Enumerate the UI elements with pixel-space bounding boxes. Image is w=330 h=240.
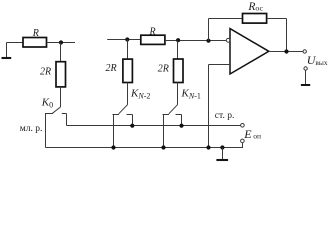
switch K0 left contact <box>45 113 53 115</box>
wire 2R to switch K0 <box>60 87 62 107</box>
wire 2R to switch KN-1 <box>177 83 179 105</box>
svg-text:оп: оп <box>253 131 261 140</box>
ground (output) <box>301 84 310 86</box>
wire K0 left contact to lower bus <box>45 114 47 148</box>
switch KN-2 right contact <box>127 114 133 116</box>
switch K0 blade <box>52 107 60 113</box>
svg-text:KN-2: KN-2 <box>130 88 150 101</box>
switch KN-2 blade <box>119 105 128 114</box>
wire node to 2R (N-1) <box>177 41 179 60</box>
junction KN-1 on upper bus <box>179 124 183 128</box>
wire 2R to switch KN-2 <box>127 83 129 105</box>
wire KN-2 left contact to lower bus <box>113 115 115 148</box>
node feedback tap <box>206 39 210 43</box>
resistor R (left) <box>23 38 47 48</box>
resistor 2R (N-2) <box>123 59 132 82</box>
ground (bottom) <box>216 159 228 161</box>
resistor 2R (N-1) <box>174 59 184 83</box>
wire feedback right <box>267 18 287 20</box>
wire to bottom ground <box>222 148 224 160</box>
svg-text:R: R <box>149 26 156 37</box>
junction ground on lower bus <box>220 145 224 149</box>
switch KN-1 right contact <box>176 114 182 116</box>
svg-text:2R: 2R <box>40 67 51 78</box>
wire output <box>269 51 303 53</box>
svg-text:KN-1: KN-1 <box>181 88 201 101</box>
svg-text:K0: K0 <box>41 96 53 109</box>
node N-1 <box>176 38 180 42</box>
node output <box>284 49 288 53</box>
wire ground to R <box>7 42 24 44</box>
lower bus wire <box>46 143 243 148</box>
wire KN-2 right contact to upper bus <box>132 115 134 126</box>
terminal Uvyh bottom <box>304 67 307 70</box>
resistor Roc <box>243 14 267 24</box>
terminal Eop <box>241 139 245 143</box>
svg-text:вых: вых <box>315 58 327 67</box>
wire KN-1 left contact to lower bus <box>163 115 165 148</box>
node N-2 <box>125 37 129 41</box>
op-amp U1 <box>230 29 269 74</box>
resistor R (middle) <box>141 35 165 44</box>
switch KN-1 blade <box>169 105 178 114</box>
ground (top-left) <box>2 43 12 59</box>
switch KN-2 left contact <box>113 114 120 116</box>
inverting input circle <box>226 38 230 42</box>
wire K0 right contact to upper bus <box>66 114 68 126</box>
wire R to opamp input <box>165 40 227 42</box>
switch KN-1 left contact <box>163 114 170 116</box>
upper bus wire <box>67 125 241 127</box>
wire node to 2R (N-2) <box>127 40 129 60</box>
svg-text:Rос: Rос <box>247 1 263 13</box>
junction KN-2 on upper bus <box>130 124 134 128</box>
svg-text:2R: 2R <box>106 63 117 74</box>
svg-text:E: E <box>243 127 252 141</box>
wire node to 2R <box>60 43 62 62</box>
junction KN-2 on lower bus <box>111 145 115 149</box>
junction opamp riser on lower bus <box>206 145 210 149</box>
wire terminal to ground <box>305 70 307 85</box>
terminal Uvyh top <box>303 50 306 53</box>
wire KN-1 right contact to upper bus <box>181 115 183 126</box>
wire R to stub end <box>47 42 76 44</box>
switch K0 right contact <box>62 113 67 115</box>
svg-text:2R: 2R <box>158 64 169 75</box>
junction KN-1 on lower bus <box>161 145 165 149</box>
node (ladder node 0) <box>59 40 63 44</box>
terminal st.r. <box>241 124 245 128</box>
svg-text:R: R <box>32 28 39 39</box>
wire feedback left <box>209 18 243 20</box>
wire riser to feedback <box>208 19 210 41</box>
svg-text:мл. р.: мл. р. <box>20 124 43 134</box>
wire ladder resume <box>107 39 141 41</box>
svg-text:ст. р.: ст. р. <box>215 111 235 121</box>
wire noninverting input <box>209 64 231 66</box>
wire feedback drop to output <box>286 19 288 52</box>
wire riser noninverting to lower bus <box>208 65 210 148</box>
resistor 2R (left) <box>56 62 66 87</box>
